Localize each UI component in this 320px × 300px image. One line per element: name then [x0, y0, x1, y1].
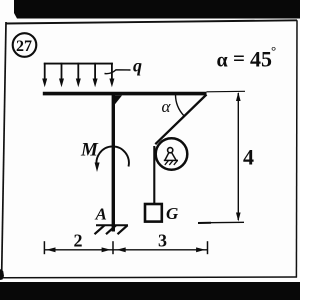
svg-text:45: 45	[250, 47, 272, 72]
thin extension line at beam end	[207, 90, 246, 93]
tick middle	[112, 241, 114, 254]
dim4 bottom arrowhead	[236, 213, 241, 222]
scan black band top	[14, 0, 300, 19]
svg-text:q: q	[133, 56, 142, 76]
frame top line	[6, 20, 297, 23]
angle alpha arc	[176, 95, 184, 116]
moment arrowhead	[95, 163, 100, 173]
arrow left of 2	[46, 247, 55, 252]
arrow right of 3	[196, 247, 205, 252]
bottom reference line for dim 4	[198, 221, 244, 224]
svg-text:α: α	[217, 50, 228, 72]
column (vertical)	[112, 95, 115, 232]
svg-text:4: 4	[243, 145, 254, 170]
pin hatches	[165, 161, 169, 165]
bottom dimension line	[44, 249, 207, 251]
pin legs	[165, 153, 169, 161]
frame bottom line	[2, 276, 297, 279]
svg-text:A: A	[95, 205, 107, 224]
hatch stroke 1	[95, 225, 105, 234]
fillet at beam-column junction	[115, 96, 122, 105]
vertical rope to weight	[153, 146, 155, 204]
arrow left of 3	[117, 247, 126, 252]
tick right	[207, 241, 209, 254]
beam (horizontal)	[43, 92, 207, 96]
svg-text:3: 3	[158, 231, 167, 251]
pulley pin support: small circle	[168, 148, 173, 153]
problem number circle 27	[13, 33, 37, 57]
weight box G	[145, 204, 162, 222]
frame left line	[2, 22, 6, 278]
svg-text:M: M	[80, 140, 99, 161]
load arrow 3	[77, 63, 79, 80]
load arrow 4	[94, 63, 96, 80]
scan blob bottom-left edge	[0, 269, 4, 280]
hatch stroke 3	[118, 225, 128, 234]
distributed load q : top line	[44, 63, 113, 65]
support A hatching: ground line	[96, 224, 128, 226]
dimension 4 vertical line	[237, 93, 239, 220]
load arrow 2	[61, 63, 63, 80]
svg-text:G: G	[166, 204, 179, 223]
frame right line	[295, 20, 298, 277]
load arrow 5	[111, 63, 113, 80]
svg-text:°: °	[271, 43, 276, 58]
svg-text:2: 2	[74, 231, 83, 251]
arrow right of 2	[102, 247, 111, 252]
q leader line	[105, 70, 131, 74]
hatch stroke 2	[106, 225, 116, 234]
pulley circle	[156, 138, 188, 170]
tick left	[43, 241, 45, 254]
scan black band bottom	[0, 282, 300, 300]
svg-text:α: α	[162, 97, 172, 116]
moment M arc	[96, 146, 128, 167]
dim4 top arrowhead	[236, 92, 241, 101]
diagonal rope from beam end to pulley	[155, 95, 206, 145]
load arrow 1	[44, 63, 46, 80]
svg-text:27: 27	[16, 38, 32, 55]
svg-text:=: =	[233, 46, 245, 70]
pin base line	[164, 159, 178, 161]
